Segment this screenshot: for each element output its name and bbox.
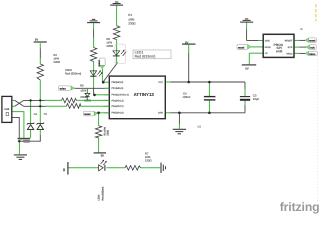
- svg-text:VCC: VCC: [158, 81, 163, 84]
- svg-text:PB0(MOSI): PB0(MOSI): [112, 81, 124, 84]
- svg-text:220Ω: 220Ω: [106, 130, 109, 136]
- svg-text:SCK: SCK: [288, 46, 293, 49]
- svg-text:GND: GND: [158, 112, 163, 115]
- svg-text:reset: reset: [309, 40, 316, 43]
- svg-text:miso: miso: [309, 53, 316, 56]
- svg-text:PB2(SCK/ADC1): PB2(SCK/ADC1): [112, 94, 130, 97]
- svg-text:mosi: mosi: [238, 46, 245, 49]
- svg-text:reset: reset: [84, 113, 91, 116]
- svg-text:±5%: ±5%: [80, 89, 86, 93]
- svg-text:AVR: AVR: [276, 49, 283, 53]
- svg-text:5V: 5V: [63, 168, 66, 171]
- svg-text:miso: miso: [60, 87, 67, 90]
- svg-text:U1: U1: [198, 125, 202, 128]
- svg-text:PB5(ADC0): PB5(ADC0): [112, 112, 124, 115]
- svg-text:D4: D4: [34, 113, 38, 116]
- svg-text:ATTINY13: ATTINY13: [134, 92, 155, 97]
- svg-text:PB1(MISO): PB1(MISO): [112, 87, 124, 90]
- svg-text:fritzing: fritzing: [280, 200, 320, 214]
- svg-text:mosi: mosi: [98, 60, 101, 67]
- svg-text:220Ω: 220Ω: [145, 158, 152, 162]
- svg-text:5V: 5V: [35, 39, 38, 42]
- svg-text:PB4(ADC2): PB4(ADC2): [112, 105, 124, 108]
- svg-text:D2: D2: [44, 113, 48, 116]
- svg-text:100nF: 100nF: [183, 95, 191, 99]
- svg-text:5V: 5V: [185, 41, 188, 44]
- svg-text:MOSI: MOSI: [265, 46, 271, 49]
- svg-text:LED4: LED4: [98, 194, 101, 201]
- svg-text:RESET: RESET: [285, 39, 293, 42]
- svg-text:PB3(ADC3): PB3(ADC3): [112, 99, 124, 102]
- svg-text:sck: sck: [310, 46, 315, 49]
- svg-text:220Ω: 220Ω: [106, 44, 113, 48]
- svg-text:5V: 5V: [245, 67, 248, 70]
- svg-text:Red (633nm): Red (633nm): [65, 72, 81, 76]
- svg-text:10μF: 10μF: [253, 97, 260, 101]
- svg-text:GND: GND: [265, 39, 270, 42]
- svg-text:220Ω: 220Ω: [84, 98, 91, 102]
- svg-text:USB: USB: [4, 108, 9, 111]
- svg-text:5V: 5V: [101, 154, 104, 157]
- svg-text:Red (633nm): Red (633nm): [101, 186, 104, 200]
- svg-text:MISO: MISO: [287, 52, 293, 55]
- svg-text:Red (633nm): Red (633nm): [135, 55, 156, 59]
- svg-text:220Ω: 220Ω: [128, 22, 136, 26]
- svg-text:220Ω: 220Ω: [53, 60, 60, 64]
- svg-text:R5: R5: [80, 83, 84, 87]
